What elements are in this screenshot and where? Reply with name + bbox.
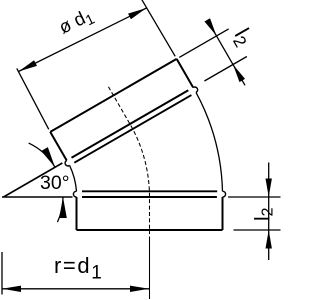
svg-text:30°: 30°: [40, 172, 70, 194]
